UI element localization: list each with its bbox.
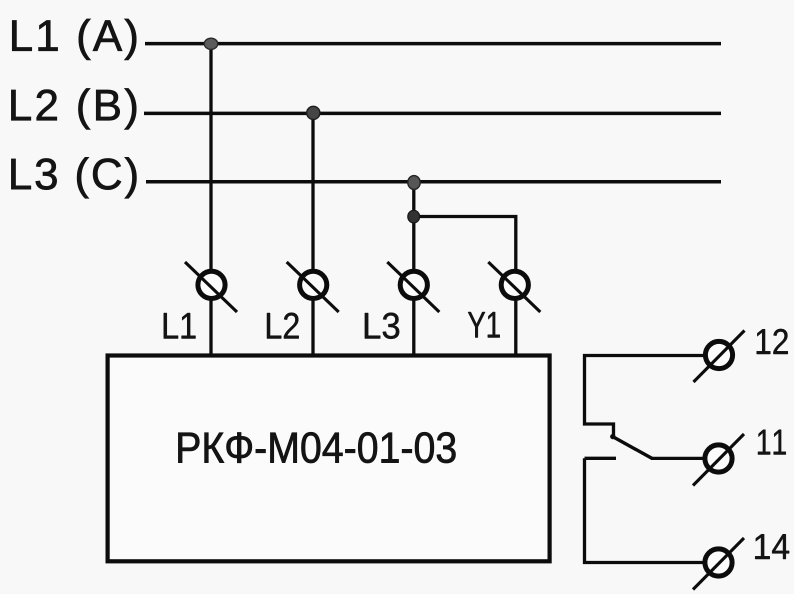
terminal circle 11 [693, 434, 744, 486]
NC contact tip blob [610, 434, 615, 439]
label phase L1 (A) [12, 19, 136, 60]
junction on L1 line [204, 38, 217, 49]
contact blade (common pole) [613, 437, 653, 459]
wire NC fixed contact to terminal 12 [585, 356, 705, 438]
label terminal 12 [757, 329, 788, 354]
junction at Y1 branch node [408, 210, 420, 223]
label phase L3 (C) [11, 157, 136, 198]
relay body box U1 [108, 356, 550, 562]
junction on L2 line [307, 106, 320, 119]
label relay type РКФ-М04-01-03 [178, 432, 455, 463]
terminal circle Y1 [488, 262, 540, 312]
label terminal L3 [365, 313, 399, 339]
wire common pole to terminal 11 [651, 457, 704, 460]
label terminal Y1 [468, 312, 500, 337]
wire tap from L3 line to terminal L3 [412, 182, 415, 356]
terminal circle 14 [693, 538, 744, 590]
junction on L3 line [408, 176, 420, 190]
wire phase line L3 [146, 180, 721, 184]
terminal circle L2 [287, 262, 339, 312]
wire phase line L1 [145, 42, 721, 46]
wire NO side down to terminal 14 [585, 458, 705, 562]
label phase L2 (B) [11, 88, 136, 129]
wire branch from L3 tap to Y1 terminal [414, 217, 516, 356]
terminal circle L1 [185, 262, 237, 312]
wire tap from L1 line to terminal L1 [209, 43, 212, 356]
terminal circle 12 [694, 331, 745, 383]
wire NO fixed contact stub [585, 457, 617, 460]
label terminal 11 [758, 430, 786, 455]
terminal circle L3 [387, 262, 439, 312]
label terminal L2 [267, 313, 299, 339]
wire tap from L2 line to terminal L2 [311, 113, 314, 355]
wire phase line L2 [144, 112, 721, 116]
label terminal 14 [755, 534, 789, 559]
label terminal L1 [164, 313, 196, 338]
